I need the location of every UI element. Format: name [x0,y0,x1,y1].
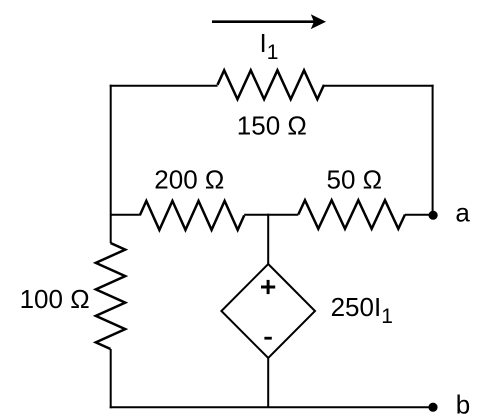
wire middle-right stub [405,214,433,216]
svg-text:250I1: 250I1 [331,292,393,328]
current arrow I1 [212,14,326,29]
wire top-right segment [324,85,434,87]
polarity minus [264,337,271,340]
dependent source 250I1 [221,264,315,358]
node b [428,403,437,412]
wire middle-center segment [244,214,298,216]
svg-text:b: b [456,390,470,417]
wire right vertical [432,85,434,216]
wire left vertical upper [110,85,112,243]
wire diamond top lead [267,214,269,264]
resistor 100ohm [96,243,125,349]
svg-text:50 Ω: 50 Ω [327,165,383,195]
svg-text:I1: I1 [260,28,279,64]
svg-text:a: a [455,197,470,227]
wire top-left segment [110,85,218,87]
resistor 50ohm [298,200,405,229]
wire diamond bottom lead [267,358,269,407]
resistor 150ohm [218,70,325,99]
resistor 200ohm [140,201,244,230]
node a [429,211,438,220]
wire middle-left stub [111,214,140,216]
polarity plus [261,280,275,294]
svg-text:200 Ω: 200 Ω [154,164,224,194]
svg-text:100 Ω: 100 Ω [20,284,90,314]
wire bottom [110,406,433,408]
wire left vertical lower [110,349,112,408]
svg-text:150 Ω: 150 Ω [237,110,307,140]
